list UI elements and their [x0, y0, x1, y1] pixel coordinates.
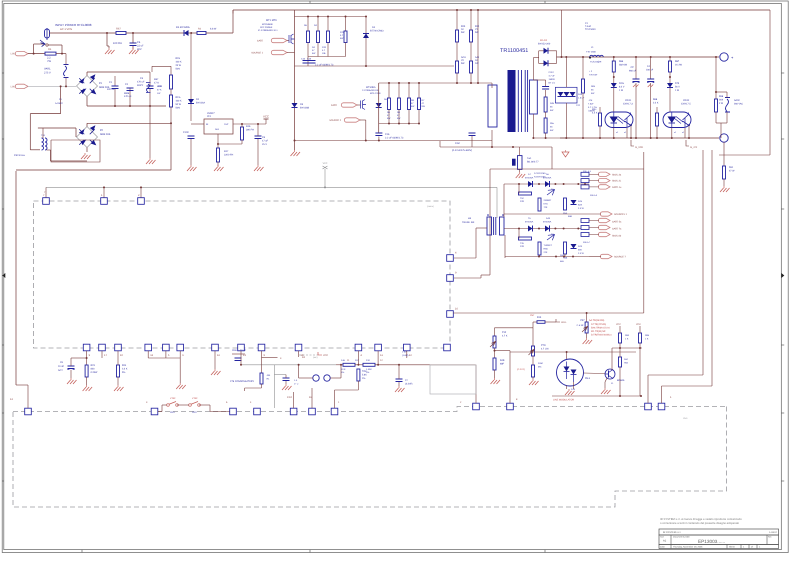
svg-text:390 FH: 390 FH	[246, 129, 254, 132]
svg-text:R26 A.3: R26 A.3	[590, 194, 598, 197]
svg-text:SM2L.3a: SM2L.3a	[612, 173, 622, 176]
svg-text:A2: A2	[663, 540, 667, 543]
svg-text:50%: 50%	[176, 68, 181, 71]
svg-text:ACY: ACY	[58, 369, 63, 372]
svg-text:VCC: VCC	[323, 354, 328, 357]
svg-text:25 V: 25 V	[262, 143, 267, 146]
svg-text:BYV26A: BYV26A	[525, 177, 534, 180]
svg-text:R24: R24	[122, 364, 127, 367]
svg-text:LM317: LM317	[207, 112, 215, 115]
svg-text:47 W: 47 W	[729, 170, 735, 173]
svg-text:D1 BY228A: D1 BY228A	[176, 26, 190, 29]
svg-text:C100: C100	[183, 131, 189, 134]
svg-text:MOV: MOV	[157, 85, 163, 88]
svg-text:PNT: PNT	[530, 314, 535, 317]
svg-text:22R: 22R	[520, 245, 524, 248]
svg-text:56V: 56V	[578, 249, 582, 252]
svg-text:10 nF: 10 nF	[58, 365, 64, 368]
svg-text:D75: D75	[675, 82, 680, 85]
svg-text:C76 CONDENSATORY: C76 CONDENSATORY	[230, 380, 254, 383]
svg-text:40V: 40V	[137, 48, 142, 51]
svg-text:TRASF. I6F: TRASF. I6F	[462, 221, 475, 224]
svg-text:A7 BYV26A: A7 BYV26A	[534, 172, 546, 175]
svg-text:R20: R20	[461, 25, 466, 28]
svg-text:CNY17.3: CNY17.3	[623, 103, 633, 106]
svg-text:5.6K: 5.6K	[362, 374, 367, 377]
svg-text:470 uF: 470 uF	[124, 95, 132, 98]
svg-text:R87: R87	[675, 60, 680, 63]
svg-text:Rev: Rev	[768, 536, 772, 539]
svg-text:5%: 5%	[122, 371, 125, 374]
svg-text:4R. TR(M) NE: 4R. TR(M) NE	[591, 330, 606, 333]
svg-text:MT5 C26B: MT5 C26B	[370, 92, 381, 95]
svg-text:(1.8M): (1.8M)	[402, 354, 409, 357]
svg-text:56B: 56B	[568, 215, 572, 218]
svg-text:47 K: 47 K	[157, 89, 162, 92]
svg-text:Document Number: Document Number	[673, 536, 690, 539]
svg-text:R10: R10	[537, 316, 542, 319]
svg-text:1 K: 1 K	[645, 338, 649, 341]
svg-text:960 uF: 960 uF	[629, 70, 637, 73]
svg-text:BT 1/1: BT 1/1	[549, 82, 556, 85]
svg-text:SOURCE 7: SOURCE 7	[614, 256, 626, 259]
svg-text:R1N: R1N	[176, 57, 181, 60]
svg-text:1Y: 1Y	[405, 379, 408, 382]
svg-text:VTRF: VTRF	[192, 397, 198, 400]
svg-text:CAP: CAP	[455, 142, 460, 145]
svg-text:VAR1: VAR1	[44, 68, 51, 71]
svg-text:A44: A44	[475, 56, 480, 59]
svg-text:2.4 W: 2.4 W	[578, 207, 585, 210]
svg-text:G_472: G_472	[690, 146, 698, 149]
svg-text:0.25W: 0.25W	[91, 371, 98, 374]
svg-text:A4 MR?: A4 MR?	[55, 102, 64, 105]
svg-text:275 V: 275 V	[44, 72, 51, 75]
svg-text:TC/C34@R: TC/C34@R	[590, 61, 602, 64]
svg-text:BYV26B: BYV26B	[300, 107, 309, 110]
svg-text:(3.3nF): (3.3nF)	[405, 383, 413, 386]
svg-text:MTP6060E: MTP6060E	[262, 23, 273, 26]
svg-text:LINE MODULATOR: LINE MODULATOR	[553, 399, 574, 402]
svg-text:R26 A.7: R26 A.7	[583, 241, 591, 244]
svg-text:SOURCEL 1: SOURCEL 1	[614, 213, 628, 216]
svg-text:3K9: 3K9	[719, 99, 724, 102]
svg-text:7-4uF: 7-4uF	[585, 25, 592, 28]
svg-text:SKB N16: SKB N16	[100, 133, 111, 136]
svg-text:Sheet: Sheet	[729, 546, 735, 549]
svg-text:6.8 W: 6.8 W	[210, 28, 217, 31]
svg-text:SM2L.3L: SM2L.3L	[612, 180, 622, 183]
svg-text:VALL: VALL	[561, 321, 567, 324]
svg-text:D2%: D2%	[619, 82, 624, 85]
svg-text:Thursday, November 29, 2006: Thursday, November 29, 2006	[673, 546, 703, 549]
svg-text:FKPY: FKPY	[137, 84, 144, 87]
svg-text:(0.47uF/275-630V): (0.47uF/275-630V)	[452, 149, 472, 152]
svg-text:72E: 72E	[544, 206, 548, 209]
svg-text:R26_A.3: R26_A.3	[583, 170, 592, 173]
svg-text:BYV26A: BYV26A	[525, 221, 534, 224]
svg-text:2200 FH: 2200 FH	[224, 154, 233, 157]
svg-text:CNY17.5: CNY17.5	[681, 103, 691, 106]
svg-text:A7 TR(47/100): A7 TR(47/100)	[591, 323, 606, 326]
svg-text:SOURCE 1: SOURCE 1	[251, 52, 263, 55]
svg-text:P07: P07	[580, 319, 585, 322]
svg-text:100 K: 100 K	[176, 100, 182, 103]
svg-text:SOT.PW06E: SOT.PW06E	[260, 26, 273, 29]
svg-text:OL1: OL1	[585, 377, 590, 380]
svg-text:230 W low: 230 W low	[14, 154, 25, 157]
svg-text:7W: 7W	[47, 60, 51, 63]
svg-text:8.2 V: 8.2 V	[619, 86, 625, 89]
svg-text:R23: R23	[91, 364, 96, 367]
svg-text:VCK: VCK	[636, 323, 641, 326]
svg-text:50% TRIM 0.5-2.6: 50% TRIM 0.5-2.6	[591, 327, 610, 330]
svg-text:1.6 uF: 1.6 uF	[578, 97, 585, 100]
svg-text:1%: 1%	[362, 377, 365, 380]
svg-text:P1F: P1F	[502, 331, 507, 334]
svg-text:25 W: 25 W	[176, 64, 182, 67]
svg-text:BYV26A: BYV26A	[196, 102, 205, 105]
svg-text:1K: 1K	[475, 59, 478, 62]
svg-text:22R: 22R	[520, 200, 524, 203]
svg-text:776-K4F: 776-K4F	[589, 74, 598, 77]
svg-text:A 19017: A 19017	[769, 531, 778, 534]
svg-text:IC1: IC1	[207, 115, 212, 118]
svg-text:TC/C3440: TC/C3440	[585, 28, 596, 31]
svg-text:D91: D91	[729, 166, 734, 169]
svg-text:CP: CP	[631, 66, 635, 69]
svg-text:GATE: GATE	[257, 40, 264, 43]
svg-text:R1M: R1M	[538, 362, 543, 365]
svg-text:1.43K: 1.43K	[366, 368, 372, 371]
svg-text:(same): (same)	[427, 205, 434, 208]
svg-text:LIN: LIN	[11, 53, 15, 56]
svg-text:1K: 1K	[461, 28, 464, 31]
svg-text:R22: R22	[475, 25, 480, 28]
svg-text:PTO: PTO	[541, 344, 546, 347]
svg-text:10 K: 10 K	[341, 368, 346, 371]
svg-text:AA.TR(26/100): AA.TR(26/100)	[589, 319, 605, 322]
svg-text:C-6 NF: C-6 NF	[577, 324, 585, 327]
svg-text:50 W: 50 W	[176, 103, 182, 106]
svg-text:IR SYSTEM s.r.l. A riserva d: IR SYSTEM s.r.l. A riserva di legge e vi…	[660, 518, 742, 521]
svg-text:GATE 5a: GATE 5a	[612, 221, 622, 224]
svg-text:C26?: C26?	[549, 71, 555, 74]
svg-text:R5A: R5A	[563, 212, 568, 215]
svg-text:o comunicare a terzi il conten: o comunicare a terzi il contenuto del pr…	[660, 522, 740, 525]
svg-text:BYV26A: BYV26A	[543, 177, 552, 180]
svg-text:AC 1 VCN: AC 1 VCN	[60, 28, 72, 31]
svg-text:R1%: R1%	[176, 96, 181, 99]
svg-text:9 10: 9 10	[287, 396, 293, 399]
svg-text:LIN: LIN	[11, 85, 15, 88]
svg-text:SA02: SA02	[734, 99, 740, 102]
svg-text:3.3 K: 3.3 K	[122, 368, 128, 371]
svg-text:ADJ: ADJ	[215, 128, 219, 131]
svg-text:4.7 LIN: 4.7 LIN	[541, 348, 549, 351]
svg-text:BIL 800.T7: BIL 800.T7	[527, 161, 539, 164]
svg-text:BC846: BC846	[617, 379, 625, 382]
svg-text:2.4 W: 2.4 W	[578, 252, 585, 255]
svg-text:TR1100451: TR1100451	[500, 48, 528, 54]
svg-text:MT10B/A: MT10B/A	[366, 86, 376, 89]
svg-text:Date:: Date:	[660, 546, 666, 549]
svg-text:TTK-2680: TTK-2680	[586, 51, 597, 54]
svg-text:R5D: R5D	[544, 248, 549, 251]
svg-text:1500V: 1500V	[549, 78, 556, 81]
svg-text:22E: 22E	[544, 251, 548, 254]
svg-text:68F: 68F	[500, 363, 505, 366]
svg-text:2.2 K: 2.2 K	[653, 102, 659, 105]
svg-text:2N3907: 2N3907	[544, 199, 552, 202]
svg-text:GND: GND	[683, 417, 688, 420]
svg-text:VCC: VCC	[323, 162, 328, 165]
svg-text:IR SYSTEM s.r.l.: IR SYSTEM s.r.l.	[663, 531, 681, 534]
svg-text:4.2 K: 4.2 K	[592, 112, 598, 115]
svg-text:100 K: 100 K	[176, 61, 182, 64]
svg-text:56 V: 56 V	[675, 86, 680, 89]
svg-text:ACH: ACH	[461, 56, 466, 59]
svg-text:BYV26A: BYV26A	[543, 221, 552, 224]
svg-text:7.6uF: 7.6uF	[588, 103, 594, 106]
svg-text:1 K: 1 K	[625, 338, 629, 341]
svg-text:BT7W CR63: BT7W CR63	[370, 30, 384, 33]
svg-text:GATE.1u: GATE.1u	[612, 186, 622, 189]
svg-text:382-0W: 382-0W	[619, 64, 628, 67]
svg-text:D.TR(TM/O NOM) a: D.TR(TM/O NOM) a	[591, 334, 612, 337]
svg-text:4.7 uF: 4.7 uF	[549, 75, 556, 78]
svg-text:R1: R1	[48, 48, 52, 51]
svg-text:100 OH: 100 OH	[113, 42, 122, 45]
svg-text:EP13003......: EP13003......	[698, 539, 725, 544]
svg-text:1%: 1%	[341, 371, 344, 374]
svg-text:OUT: OUT	[224, 123, 229, 126]
svg-text:260 VAC: 260 VAC	[734, 103, 743, 106]
svg-text:SW1: SW1	[170, 411, 176, 414]
svg-text:100 uF: 100 uF	[646, 69, 654, 72]
svg-text:2.2 uF 630B/1.73: 2.2 uF 630B/1.73	[385, 137, 404, 140]
svg-text:BYV52-200: BYV52-200	[538, 43, 551, 46]
svg-text:(C-R G): (C-R G)	[517, 368, 525, 371]
svg-text:INPUT POWER RTCL0008: INPUT POWER RTCL0008	[55, 23, 92, 27]
svg-text:R68: R68	[653, 98, 658, 101]
svg-text:R98: R98	[719, 95, 724, 98]
svg-text:C-0T09643R 10L: C-0T09643R 10L	[362, 89, 380, 92]
svg-text:MT1 MT9: MT1 MT9	[266, 19, 277, 22]
svg-text:VCC: VCC	[616, 323, 621, 326]
svg-text:CN6: CN6	[232, 349, 237, 352]
svg-text:R86: R86	[619, 60, 624, 63]
svg-text:GATE: GATE	[331, 104, 338, 107]
svg-text:VTRF: VTRF	[170, 397, 176, 400]
svg-text:SOURCE 2: SOURCE 2	[329, 119, 341, 122]
svg-text:PRG: PRG	[192, 411, 197, 414]
svg-text:IC-DT090643R 10.1: IC-DT090643R 10.1	[258, 29, 278, 32]
svg-text:400 uF: 400 uF	[107, 88, 115, 91]
svg-text:TOK: TOK	[362, 370, 367, 373]
svg-text:G_VCK: G_VCK	[635, 146, 644, 149]
svg-text:TH2NET: TH2NET	[544, 244, 553, 247]
svg-text:1K 2W: 1K 2W	[675, 64, 683, 67]
svg-text:B2X: B2X	[578, 204, 583, 207]
svg-text:1 5V: 1 5V	[402, 351, 407, 354]
svg-text:50%: 50%	[176, 107, 181, 110]
svg-text:SM2L.6b: SM2L.6b	[612, 235, 622, 238]
svg-text:R4B: R4B	[500, 359, 505, 362]
svg-text:KTD: KTD	[544, 203, 549, 206]
svg-text:4.7 K: 4.7 K	[502, 335, 508, 338]
svg-text:R67: R67	[116, 28, 121, 31]
svg-text:GATE 7a: GATE 7a	[612, 228, 622, 231]
svg-text:MC: MC	[538, 366, 542, 369]
svg-text:(arc): (arc)	[313, 356, 318, 359]
svg-text:VCC: VCC	[263, 115, 269, 119]
